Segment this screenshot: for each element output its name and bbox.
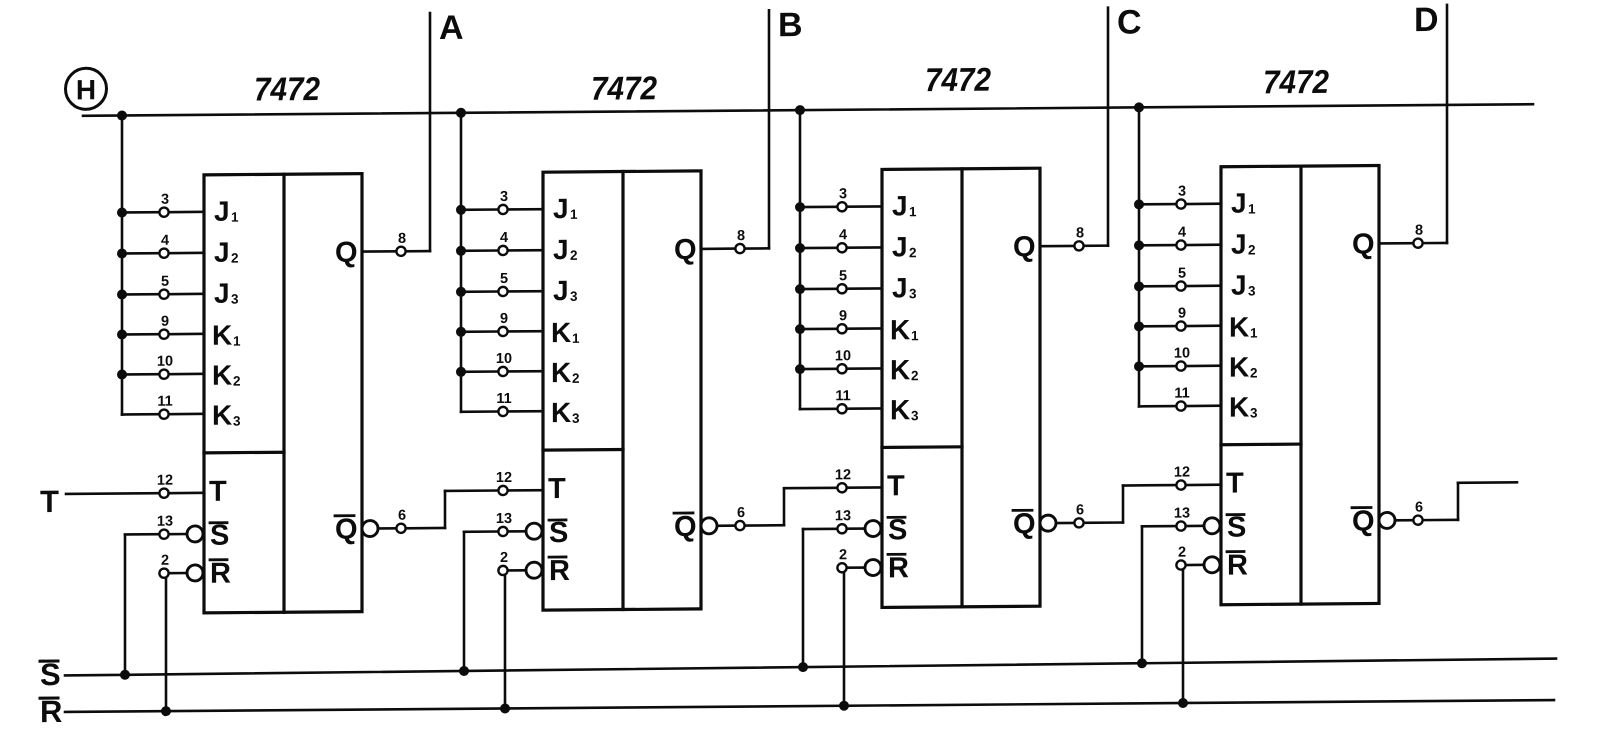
svg-text:J: J <box>1231 229 1247 260</box>
junction U1 K1 row tap <box>117 329 127 339</box>
svg-text:2: 2 <box>1178 545 1186 561</box>
svg-text:K: K <box>212 320 232 351</box>
svg-text:7472: 7472 <box>1263 63 1330 101</box>
inversion bubble U1 S-bar <box>187 526 203 542</box>
svg-text:T: T <box>887 470 905 502</box>
label K3 (U2) <box>551 397 580 428</box>
svg-text:2: 2 <box>233 374 241 389</box>
pin 2 U3 (R-bar input) <box>837 547 865 572</box>
pin 12 U2 (T input) <box>445 470 543 496</box>
label T (U3) <box>887 470 905 502</box>
svg-text:9: 9 <box>1178 306 1186 322</box>
svg-text:2: 2 <box>161 553 169 569</box>
svg-text:5: 5 <box>161 274 169 290</box>
label J2 (U4) <box>1231 228 1256 259</box>
node C <box>1117 3 1142 41</box>
pin 3 U3 (J1 input) <box>800 186 882 212</box>
pin 3 U1 (J1 input) <box>122 191 204 217</box>
svg-text:8: 8 <box>1415 223 1423 239</box>
inversion bubble U1 R-bar <box>187 565 203 581</box>
svg-text:H: H <box>76 74 96 105</box>
label 7472 (part value of U2) <box>591 69 658 107</box>
pin 5 U1 (J3 input) <box>122 273 204 299</box>
label R-bar net <box>40 694 62 729</box>
pin 2 U4 (R-bar input) <box>1176 544 1204 569</box>
svg-text:5: 5 <box>500 271 508 287</box>
wire U4 input bus drop <box>1138 107 1141 406</box>
svg-text:13: 13 <box>157 514 173 530</box>
pin 5 U4 (J3 input) <box>1139 265 1221 291</box>
inversion bubble U2 Q-bar <box>701 518 717 534</box>
wire U4 Q to node D <box>1446 5 1449 243</box>
pin 4 U2 (J2 input) <box>461 230 543 256</box>
pin 6 U1 (Q-bar output) <box>378 507 445 533</box>
label Q (U1) <box>335 237 358 269</box>
junction U4 K2 row tap <box>1134 361 1144 371</box>
pin 12 U4 (T input) <box>1123 464 1221 490</box>
junction U3 R-bar bus tap <box>839 701 849 711</box>
svg-text:1: 1 <box>572 331 580 346</box>
svg-text:K: K <box>1229 312 1249 343</box>
wire U3 input bus drop <box>799 110 802 409</box>
svg-text:S: S <box>549 517 568 549</box>
junction U2 R-bar bus tap <box>500 703 510 713</box>
wire H bus (top horizontal rail) <box>83 104 1533 116</box>
svg-text:K: K <box>212 400 232 431</box>
junction U3 J2 row tap <box>795 243 805 253</box>
label J3 (U2) <box>553 275 578 306</box>
pin 11 U4 (K3 input) <box>1139 385 1221 411</box>
svg-text:4: 4 <box>161 233 169 249</box>
node B <box>778 6 803 44</box>
pin 12 U3 (T input) <box>784 467 882 493</box>
svg-text:11: 11 <box>835 388 850 404</box>
junction U2 J1 row tap <box>456 205 466 215</box>
junction U3 J1 row tap <box>795 202 805 212</box>
flip-flop U4 body (7472 JK flip-flop) <box>1221 165 1379 604</box>
svg-text:10: 10 <box>1174 345 1190 361</box>
label K1 (U3) <box>890 314 919 345</box>
label Q (U3) <box>1013 231 1036 263</box>
pin 10 U2 (K2 input) <box>461 351 543 377</box>
label R-bar (U1) <box>210 558 231 590</box>
svg-text:10: 10 <box>157 354 173 370</box>
svg-text:2: 2 <box>500 550 508 566</box>
label K2 (U2) <box>551 357 580 388</box>
svg-text:3: 3 <box>500 189 508 205</box>
svg-text:1: 1 <box>1250 325 1258 340</box>
label J2 (U2) <box>553 234 578 265</box>
inversion bubble U4 Q-bar <box>1379 512 1395 528</box>
svg-text:Q: Q <box>335 237 358 269</box>
svg-text:2: 2 <box>909 245 917 260</box>
pin 11 U3 (K3 input) <box>800 388 882 414</box>
label T (U1) <box>209 476 227 508</box>
flip-flop U2 body (7472 JK flip-flop) <box>543 171 701 610</box>
svg-text:1: 1 <box>570 207 578 222</box>
pin 6 U3 (Q-bar output) <box>1056 502 1123 528</box>
junction U1 R-bar bus tap <box>161 706 171 716</box>
svg-text:Q: Q <box>674 234 697 266</box>
svg-text:9: 9 <box>839 308 847 324</box>
svg-text:3: 3 <box>233 414 241 429</box>
svg-text:1: 1 <box>233 334 241 349</box>
svg-text:9: 9 <box>161 314 169 330</box>
label Q-bar (U1) <box>335 514 358 546</box>
svg-text:13: 13 <box>1174 505 1190 521</box>
wire U3 Q to node C <box>1107 8 1110 246</box>
svg-text:J: J <box>553 275 569 306</box>
svg-text:1: 1 <box>909 204 917 219</box>
label Q (U4) <box>1352 229 1375 261</box>
svg-text:7472: 7472 <box>925 61 992 99</box>
svg-text:12: 12 <box>157 473 173 489</box>
label S-bar (U4) <box>1227 512 1246 544</box>
svg-text:7472: 7472 <box>591 69 658 107</box>
svg-text:J: J <box>1231 270 1247 301</box>
junction U1 J2 row tap <box>117 248 127 258</box>
svg-text:Q: Q <box>1013 508 1036 540</box>
wire T input to U1 pin 12 <box>66 492 159 495</box>
label K1 (U2) <box>551 317 580 348</box>
pin 4 U3 (J2 input) <box>800 227 882 253</box>
svg-text:6: 6 <box>1415 500 1423 516</box>
junction U2 J2 row tap <box>456 246 466 256</box>
junction U4 J2 row tap <box>1134 240 1144 250</box>
label T (U4) <box>1226 468 1244 500</box>
svg-text:8: 8 <box>737 228 745 244</box>
svg-text:3: 3 <box>911 408 919 423</box>
svg-text:4: 4 <box>839 227 847 243</box>
svg-text:10: 10 <box>835 348 851 364</box>
label S-bar net <box>40 657 61 692</box>
svg-text:3: 3 <box>1248 283 1256 298</box>
label K3 (U3) <box>890 394 919 425</box>
wire U1 input bus drop <box>121 116 124 415</box>
svg-text:9: 9 <box>500 311 508 327</box>
pin 12 U1 (T input) <box>157 472 204 497</box>
junction U1 S-bar bus tap <box>120 670 130 680</box>
svg-text:J: J <box>214 278 230 309</box>
svg-text:J: J <box>214 196 230 227</box>
label R-bar (U3) <box>888 552 909 584</box>
label T input <box>40 484 59 519</box>
wire U2 Q-bar riser to U3 T <box>783 488 786 525</box>
label K2 (U3) <box>890 354 919 385</box>
svg-text:Q: Q <box>1352 229 1375 261</box>
svg-text:3: 3 <box>570 289 578 304</box>
junction U3 K2 row tap <box>795 364 805 374</box>
pin 2 U1 (R-bar input) <box>159 553 187 578</box>
label J3 (U4) <box>1231 269 1256 300</box>
svg-text:A: A <box>439 9 464 47</box>
wire U3 S-bar to bus <box>803 529 837 667</box>
svg-text:1: 1 <box>231 210 239 225</box>
svg-text:K: K <box>890 314 910 345</box>
svg-text:R: R <box>549 555 570 587</box>
label K2 (U1) <box>212 360 241 391</box>
wire U3 Q-bar riser to U4 T <box>1122 486 1125 523</box>
pin 9 U2 (K1 input) <box>461 311 543 337</box>
svg-text:4: 4 <box>1178 225 1186 241</box>
pin 13 U1 (S-bar input) <box>157 514 187 539</box>
pin 10 U1 (K2 input) <box>122 353 204 379</box>
svg-text:2: 2 <box>1250 365 1258 380</box>
svg-text:T: T <box>209 476 227 508</box>
inversion bubble U3 S-bar <box>865 520 881 536</box>
svg-text:12: 12 <box>496 470 512 486</box>
wire R-bar bus (bottom horizontal rail) <box>65 700 1554 712</box>
pin 4 U1 (J2 input) <box>122 232 204 258</box>
junction U1 K2 row tap <box>117 369 127 379</box>
pin 9 U4 (K1 input) <box>1139 305 1221 331</box>
wire U4 S-bar to bus <box>1142 526 1176 663</box>
junction U1 J3 row tap <box>117 289 127 299</box>
label J3 (U3) <box>892 272 917 303</box>
svg-text:12: 12 <box>1174 464 1190 480</box>
label 7472 (part value of U4) <box>1263 63 1330 101</box>
pin 3 U4 (J1 input) <box>1139 183 1221 209</box>
junction U4 R-bar bus tap <box>1178 698 1188 708</box>
pin 11 U2 (K3 input) <box>461 391 543 417</box>
svg-text:3: 3 <box>909 286 917 301</box>
wire U1 S-bar to bus <box>125 534 159 675</box>
label J1 (U1) <box>214 196 239 227</box>
junction U3 H-bus tap <box>795 105 805 115</box>
svg-text:J: J <box>553 193 569 224</box>
svg-text:Q: Q <box>335 514 358 546</box>
pin 2 U2 (R-bar input) <box>498 550 526 575</box>
wire U2 S-bar to bus <box>464 532 498 671</box>
svg-text:1: 1 <box>911 328 919 343</box>
node H (clock input) <box>66 68 107 109</box>
junction U2 K1 row tap <box>456 327 466 337</box>
pin 6 U2 (Q-bar output) <box>717 505 784 531</box>
node D <box>1414 1 1439 39</box>
pin 8 U4 (Q output) <box>1379 222 1447 248</box>
inversion bubble U2 S-bar <box>526 523 542 539</box>
pin 5 U2 (J3 input) <box>461 271 543 297</box>
label Q-bar (U4) <box>1352 506 1375 538</box>
svg-text:13: 13 <box>496 511 512 527</box>
wire U2 input bus drop <box>460 113 463 412</box>
svg-text:4: 4 <box>500 230 508 246</box>
pin 13 U3 (S-bar input) <box>835 508 865 533</box>
svg-text:K: K <box>551 357 571 388</box>
svg-text:6: 6 <box>1076 502 1084 518</box>
pin 10 U3 (K2 input) <box>800 348 882 374</box>
svg-text:2: 2 <box>1248 242 1256 257</box>
svg-text:2: 2 <box>911 368 919 383</box>
junction U4 J1 row tap <box>1134 199 1144 209</box>
svg-text:8: 8 <box>1076 225 1084 241</box>
svg-text:J: J <box>892 272 908 303</box>
pin 5 U3 (J3 input) <box>800 268 882 294</box>
label J2 (U1) <box>214 237 239 268</box>
junction U4 K1 row tap <box>1134 321 1144 331</box>
label Q-bar (U3) <box>1013 508 1036 540</box>
svg-text:Q: Q <box>1013 231 1036 263</box>
svg-text:K: K <box>1229 352 1249 383</box>
svg-text:7472: 7472 <box>254 70 321 108</box>
svg-text:3: 3 <box>572 411 580 426</box>
svg-text:3: 3 <box>1178 184 1186 200</box>
svg-text:K: K <box>1229 392 1249 423</box>
label J3 (U1) <box>214 278 239 309</box>
inversion bubble U2 R-bar <box>526 562 542 578</box>
svg-text:Q: Q <box>674 511 697 543</box>
pin 13 U2 (S-bar input) <box>496 511 526 536</box>
svg-text:R: R <box>1227 550 1248 582</box>
wire U4 R-bar to bus <box>1182 570 1185 703</box>
svg-text:3: 3 <box>1250 405 1258 420</box>
svg-text:J: J <box>892 190 908 221</box>
svg-text:11: 11 <box>496 391 511 407</box>
junction U4 S-bar bus tap <box>1137 658 1147 668</box>
svg-text:8: 8 <box>398 231 406 247</box>
svg-text:C: C <box>1117 3 1142 41</box>
svg-text:6: 6 <box>737 505 745 521</box>
flip-flop U3 body (7472 JK flip-flop) <box>882 168 1040 607</box>
label T (U2) <box>548 473 566 505</box>
pin 11 U1 (K3 input) <box>122 393 204 419</box>
svg-text:3: 3 <box>161 192 169 208</box>
pin 6 U4 (Q-bar output) <box>1395 499 1458 525</box>
junction U3 J3 row tap <box>795 284 805 294</box>
junction U2 S-bar bus tap <box>459 666 469 676</box>
pin 3 U2 (J1 input) <box>461 189 543 215</box>
pin 8 U3 (Q output) <box>1040 225 1108 251</box>
svg-text:R: R <box>888 552 909 584</box>
svg-text:S: S <box>1227 512 1246 544</box>
label K3 (U4) <box>1229 391 1258 422</box>
svg-text:Q: Q <box>1352 506 1375 538</box>
inversion bubble U1 Q-bar <box>362 520 378 536</box>
svg-text:T: T <box>40 484 59 519</box>
svg-text:S: S <box>888 514 907 546</box>
pin 9 U3 (K1 input) <box>800 308 882 334</box>
pin 4 U4 (J2 input) <box>1139 224 1221 250</box>
svg-text:D: D <box>1414 1 1439 39</box>
junction U3 S-bar bus tap <box>798 662 808 672</box>
svg-text:3: 3 <box>839 186 847 202</box>
svg-text:5: 5 <box>839 268 847 284</box>
svg-text:K: K <box>890 354 910 385</box>
flip-flop U1 body (7472 JK flip-flop) <box>204 174 362 613</box>
junction U3 K1 row tap <box>795 324 805 334</box>
label J1 (U2) <box>553 193 578 224</box>
junction U2 J3 row tap <box>456 287 466 297</box>
pin 8 U1 (Q output) <box>362 231 430 257</box>
svg-text:K: K <box>551 397 571 428</box>
label J1 (U3) <box>892 190 917 221</box>
node A <box>439 9 464 47</box>
wire U2 R-bar to bus <box>504 575 507 708</box>
svg-text:2: 2 <box>572 371 580 386</box>
junction U1 H-bus tap <box>117 110 127 120</box>
label R-bar (U2) <box>549 555 570 587</box>
label 7472 (part value of U1) <box>254 70 321 108</box>
label 7472 (part value of U3) <box>925 61 992 99</box>
svg-text:11: 11 <box>1174 385 1189 401</box>
junction U4 H-bus tap <box>1134 102 1144 112</box>
svg-text:1: 1 <box>1248 201 1256 216</box>
inversion bubble U4 R-bar <box>1204 557 1220 573</box>
svg-text:10: 10 <box>496 351 512 367</box>
svg-text:12: 12 <box>835 467 851 483</box>
svg-text:J: J <box>553 234 569 265</box>
label K3 (U1) <box>212 400 241 431</box>
label K1 (U4) <box>1229 311 1258 342</box>
svg-text:S: S <box>210 520 229 552</box>
label S-bar (U3) <box>888 514 907 546</box>
svg-text:R: R <box>210 558 231 590</box>
junction U1 J1 row tap <box>117 207 127 217</box>
label S-bar (U2) <box>549 517 568 549</box>
svg-text:13: 13 <box>835 508 851 524</box>
inversion bubble U3 Q-bar <box>1040 515 1056 531</box>
pin 8 U2 (Q output) <box>701 228 769 254</box>
wire U2 Q to node B <box>768 10 771 248</box>
wire U1 Q to node A <box>429 13 432 251</box>
svg-text:J: J <box>214 237 230 268</box>
svg-text:K: K <box>212 360 232 391</box>
inversion bubble U3 R-bar <box>865 559 881 575</box>
label Q-bar (U2) <box>674 511 697 543</box>
label J1 (U4) <box>1231 187 1256 218</box>
label K1 (U1) <box>212 320 241 351</box>
pin 13 U4 (S-bar input) <box>1174 505 1204 530</box>
svg-text:K: K <box>551 317 571 348</box>
svg-text:2: 2 <box>231 251 239 266</box>
inversion bubble U4 S-bar <box>1204 518 1220 534</box>
svg-text:B: B <box>778 6 803 44</box>
label Q (U2) <box>674 234 697 266</box>
svg-text:5: 5 <box>1178 266 1186 282</box>
svg-text:6: 6 <box>398 508 406 524</box>
pin 9 U1 (K1 input) <box>122 313 204 339</box>
svg-text:11: 11 <box>157 394 172 410</box>
wire S-bar bus (bottom horizontal rail) <box>65 659 1556 676</box>
label S-bar (U1) <box>210 520 229 552</box>
wire U3 R-bar to bus <box>843 572 846 705</box>
junction U4 J3 row tap <box>1134 281 1144 291</box>
svg-text:T: T <box>548 473 566 505</box>
svg-text:2: 2 <box>570 248 578 263</box>
wire U4 Q-bar output stub <box>1458 482 1517 519</box>
pin 10 U4 (K2 input) <box>1139 345 1221 371</box>
svg-text:T: T <box>1226 468 1244 500</box>
wire U1 R-bar to bus <box>165 578 168 711</box>
svg-text:J: J <box>1231 188 1247 219</box>
junction U2 H-bus tap <box>456 108 466 118</box>
label J2 (U3) <box>892 231 917 262</box>
label R-bar (U4) <box>1227 550 1248 582</box>
label K2 (U4) <box>1229 351 1258 382</box>
svg-text:3: 3 <box>231 292 239 307</box>
svg-text:K: K <box>890 394 910 425</box>
junction U2 K2 row tap <box>456 367 466 377</box>
svg-text:2: 2 <box>839 547 847 563</box>
wire U1 Q-bar riser to U2 T <box>444 491 447 528</box>
svg-text:J: J <box>892 231 908 262</box>
